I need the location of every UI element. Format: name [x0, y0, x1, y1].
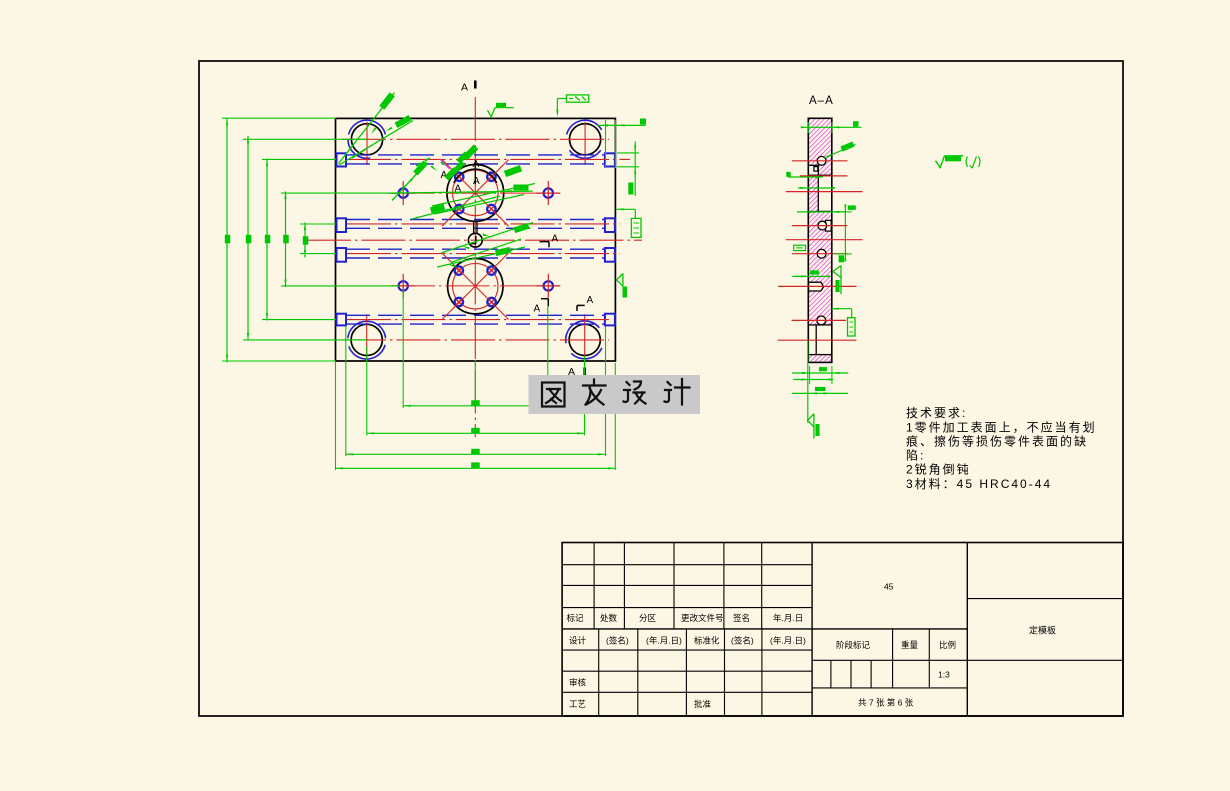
side pin hole 4 [536, 274, 560, 298]
svg-text:(签名): (签名) [731, 636, 754, 646]
svg-text:工艺: 工艺 [569, 699, 586, 709]
cooling slot band 1 [337, 153, 631, 166]
guide bushing circle 2 [567, 120, 602, 165]
section boxed label left [794, 245, 806, 250]
svg-text:A–A: A–A [809, 95, 834, 107]
section hole 2 [818, 221, 827, 230]
leader to upper left pin hole [392, 160, 428, 200]
section hole 4 [817, 316, 826, 325]
bottom dim line 4 [336, 462, 616, 469]
right ext lines [606, 120, 616, 168]
section bottom dims [792, 366, 848, 395]
svg-text:年.月.日: 年.月.日 [773, 613, 803, 623]
svg-text:处数: 处数 [600, 613, 618, 623]
watermark box [529, 375, 701, 414]
cooling slot band 3 [337, 248, 621, 262]
bottom bore [808, 325, 832, 355]
bottom dim extension lines [336, 290, 616, 470]
technical requirements text [906, 406, 1097, 491]
horizontal centerline main [307, 239, 642, 241]
svg-text:标准化: 标准化 [694, 636, 720, 646]
guide bushing circle 4 [566, 314, 602, 359]
boxed label top with leader [556, 95, 588, 117]
roughness symbol general note [936, 156, 981, 168]
svg-text:(年.月.日): (年.月.日) [770, 636, 806, 646]
label A-A [809, 95, 834, 107]
section jog mark 3 [577, 295, 594, 311]
hole row centerline upper [391, 192, 560, 194]
plate outline main view [336, 118, 616, 361]
section roughness mid [833, 266, 841, 295]
svg-text:(年.月.日): (年.月.日) [646, 636, 682, 646]
leader labels lower circle [437, 247, 525, 267]
section leader hole1 [824, 141, 856, 158]
pocket right [818, 175, 832, 211]
section slot dim [792, 270, 830, 277]
left dim line 5 [303, 223, 309, 258]
svg-text:A: A [461, 82, 468, 94]
cooling slot band 2 [337, 218, 621, 232]
side pin hole 1 [391, 181, 415, 205]
section hole 1 [817, 156, 826, 165]
svg-text:A: A [587, 295, 594, 306]
svg-text:标记: 标记 [567, 613, 585, 623]
bottom dim line 2 [367, 428, 585, 435]
hole row centerline lower [391, 285, 560, 287]
sprue bushing circle [468, 221, 482, 247]
right slot height dim [617, 142, 639, 197]
svg-text:痕、擦伤等损伤零件表面的缺: 痕、擦伤等损伤零件表面的缺 [906, 434, 1088, 449]
svg-text:审核: 审核 [569, 678, 587, 688]
section jog mark 1 [540, 233, 559, 247]
svg-text:更改文件号: 更改文件号 [681, 613, 724, 623]
screw slot section [809, 282, 824, 291]
roughness symbol plate top [488, 103, 514, 117]
section bar outline [808, 118, 832, 362]
vertical centerline main [474, 97, 476, 437]
svg-text:2锐角倒钝: 2锐角倒钝 [906, 463, 971, 477]
centerline top circle row [342, 138, 609, 140]
leader labels middle circle [441, 223, 533, 263]
section roughness bottom [808, 340, 820, 438]
svg-text:共 7 张 第 6 张: 共 7 张 第 6 张 [858, 698, 914, 708]
svg-text:技术要求:: 技术要求: [906, 406, 967, 420]
left dim line 2 [246, 136, 252, 341]
section dim pocket [797, 205, 856, 213]
svg-text:A: A [534, 304, 541, 315]
bottom dim line 1 [403, 400, 548, 407]
left dim line 3 [265, 159, 271, 321]
svg-text:陷:: 陷: [906, 448, 925, 463]
svg-text:(签名): (签名) [606, 636, 629, 646]
section dim 2 [798, 187, 835, 189]
svg-text:阶段标记: 阶段标记 [836, 640, 871, 650]
section mark A top [461, 81, 475, 94]
svg-text:分区: 分区 [639, 613, 657, 623]
title block texts [567, 582, 1057, 710]
svg-text:比例: 比例 [939, 640, 956, 650]
svg-text:批准: 批准 [694, 699, 712, 709]
centerline bottom circle row [342, 339, 609, 341]
section top width dim [801, 121, 862, 133]
side pin hole 2 [536, 181, 560, 205]
svg-text:设计: 设计 [569, 636, 587, 646]
section bar hatching [808, 118, 832, 362]
left dim line 1 [225, 118, 231, 363]
roughness symbol plate right [617, 273, 627, 297]
section boxed label bottom right [831, 308, 855, 336]
svg-text:A: A [473, 159, 480, 170]
counterbore rect [826, 220, 832, 231]
keyway notch left [808, 165, 818, 175]
side pin hole 3 [391, 274, 415, 298]
leader labels upper circle [352, 145, 535, 219]
svg-text:3材料：45 HRC40-44: 3材料：45 HRC40-44 [906, 477, 1052, 491]
dim top-right circle [597, 119, 646, 127]
locating ring circle upper [441, 160, 509, 227]
svg-text:1:3: 1:3 [938, 670, 950, 680]
svg-text:1零件加工表面上，不应当有划: 1零件加工表面上，不应当有划 [906, 420, 1097, 435]
left dim line 4 [283, 192, 289, 288]
svg-text:重量: 重量 [901, 640, 919, 650]
section mark A bottom [568, 366, 585, 378]
section right vertical dim [833, 204, 852, 262]
letters A at center circle [441, 159, 481, 195]
bottom dim line 3 [346, 449, 606, 456]
svg-text:A: A [473, 176, 480, 187]
svg-text:A: A [552, 233, 559, 244]
svg-text:定模板: 定模板 [1029, 625, 1056, 636]
left dim extension lines [222, 118, 399, 361]
guide bushing circle 1 [348, 120, 385, 165]
leader labels top-left circle [339, 92, 414, 165]
boxed tolerance label right [616, 208, 641, 237]
section internal edges [808, 175, 832, 211]
section hole 3 [817, 249, 826, 258]
svg-text:45: 45 [884, 582, 894, 592]
cooling slot band 4 [337, 314, 615, 326]
section jog mark 2 [534, 299, 549, 315]
section centerlines red [778, 161, 863, 340]
section left small dim [786, 172, 823, 178]
guide bushing circle 3 [348, 314, 386, 359]
svg-text:签名: 签名 [733, 613, 750, 623]
drawing border frame [199, 61, 1123, 716]
title block grid [562, 543, 1123, 717]
locating ring circle lower [442, 253, 509, 320]
